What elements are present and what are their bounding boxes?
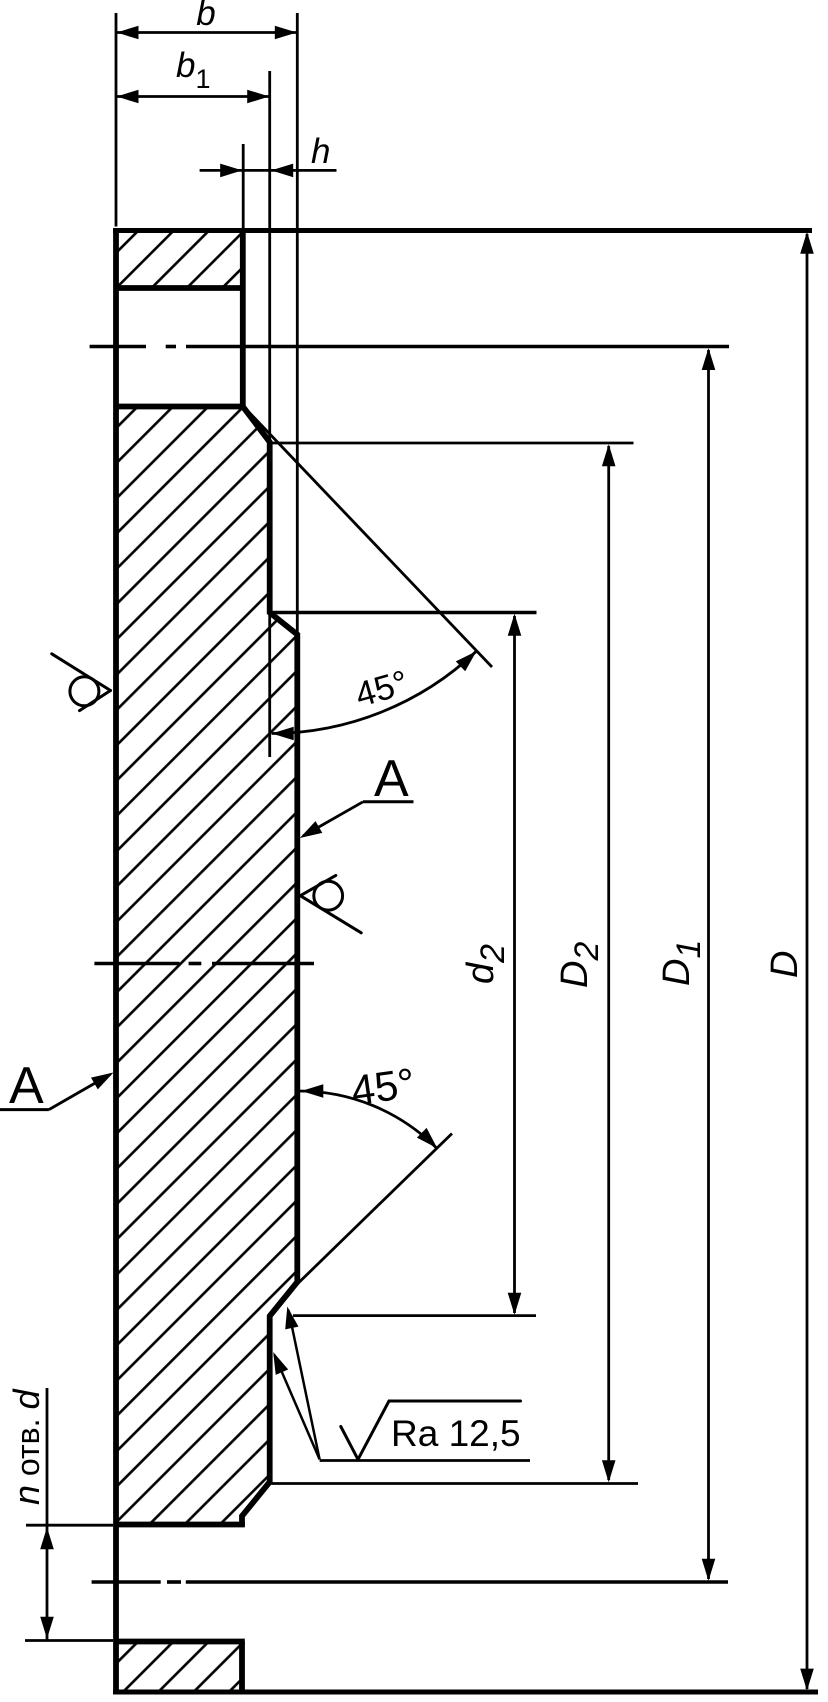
svg-text:h: h [311, 132, 330, 171]
bottom bolt hole centerline (dash-dot) + D1 bottom extension [92, 1580, 161, 1584]
extension line d hole bottom [25, 1639, 113, 1642]
Ra leader arrow to step face [275, 1355, 320, 1459]
flange axis centerline (dash-dot) [94, 962, 179, 966]
surface finish symbol on left edge (circle-check) [52, 654, 111, 691]
extension line D2 bottom [271, 1482, 638, 1485]
extension of step face for angle arc [268, 614, 271, 757]
dimension line h (outside arrows) [200, 169, 337, 172]
dimension line d hole + label leader [46, 1388, 49, 1640]
extension line d hole top [26, 1524, 113, 1527]
bottom ring right edge [239, 1642, 245, 1695]
bottom bolt hole lower edge [114, 1639, 245, 1645]
flange bottom face + D bottom extension line [113, 1690, 818, 1695]
chamfer construction line top [245, 408, 493, 668]
hatch main flange body section [116, 407, 297, 1525]
svg-text:D: D [764, 951, 806, 978]
svg-text:n отв. d: n отв. d [6, 1389, 47, 1505]
svg-text:45°: 45° [348, 1059, 417, 1114]
hatch top flange ring section [116, 231, 243, 289]
dimension line d2 with arrows [513, 616, 516, 1313]
extension line x=243 (h) [242, 144, 245, 229]
top bolt hole lower edge [114, 404, 245, 410]
flange right profile (back edge, chamfers, step face, raised face) [242, 231, 297, 1527]
extension line d2 bottom [293, 1314, 536, 1317]
top bolt hole upper edge [114, 285, 245, 291]
Ra leader arrow to chamfer [289, 1310, 320, 1459]
hatch bottom flange ring section [116, 1642, 243, 1693]
leader arrow A bottom [49, 1075, 110, 1110]
svg-text:A: A [9, 1057, 44, 1115]
extension line left (b/b1) [115, 13, 118, 227]
chamfer construction line bottom [297, 1134, 452, 1285]
dimension line D1 with arrows [707, 350, 710, 1579]
flange left edge [113, 229, 119, 1695]
flange top face + D top extension line [113, 228, 812, 233]
extension line d2 top [270, 611, 537, 614]
svg-text:A: A [374, 750, 409, 808]
extension line D2 top [268, 442, 634, 445]
svg-text:Ra 12,5: Ra 12,5 [391, 1413, 521, 1454]
leader arrow A top [303, 802, 363, 836]
dimension line b1 [116, 95, 270, 98]
45deg arc top [272, 651, 477, 733]
svg-text:b: b [196, 0, 215, 33]
45deg arc bottom [299, 1091, 436, 1148]
surface finish symbol on raised face (circle-check) [300, 896, 361, 933]
extension line x=270 (b1) [268, 71, 271, 442]
dimension line b [116, 31, 297, 34]
Ra 12,5 check symbol [341, 1427, 358, 1460]
top bolt hole centerline (dash-dot) + D1 top extension [90, 345, 146, 349]
extension line x=297 (b, raised face) [296, 13, 299, 633]
bottom bolt hole upper edge [114, 1522, 245, 1528]
dimension line D2 with arrows [607, 446, 610, 1480]
dimension line D with arrows [806, 234, 809, 1689]
Ra leader shoulder [320, 1459, 530, 1462]
